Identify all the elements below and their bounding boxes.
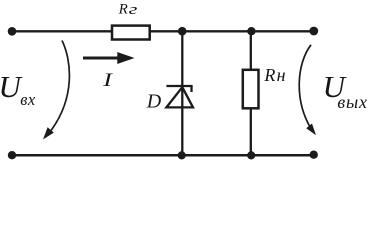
wire bottom [12,154,314,157]
svg-text:R: R [118,2,128,18]
terminal dot top-left [8,27,17,36]
terminal dot top-right [309,27,318,36]
wire Rн branch upper [250,31,252,70]
zener diode D triangle [166,87,193,107]
current arrow I [83,52,135,64]
wire top-left segment [12,30,112,32]
curved arrow Uвх [43,41,69,140]
svg-text:г: г [129,2,138,18]
wire diode branch vertical [181,31,183,155]
svg-text:D: D [146,90,162,112]
svg-text:вх: вх [20,90,36,109]
node junction top diode branch [178,27,187,36]
svg-text:вых: вых [337,92,367,112]
node junction bottom Rн branch [247,151,255,159]
wire top-right segment [150,30,314,32]
resistor R1 (Rг) [112,26,150,40]
zener diode D cathode tab [190,86,192,92]
curved arrow Uвых [299,45,316,136]
terminal dot bottom-right [310,151,318,159]
terminal dot bottom-left [8,151,16,159]
svg-text:Rн: Rн [263,65,285,85]
zener diode D cathode bar [166,85,192,87]
node junction top Rн branch [247,27,255,35]
resistor R2 (Rн) [243,70,259,109]
node junction bottom diode branch [178,151,186,159]
wire Rн branch lower [250,108,252,155]
